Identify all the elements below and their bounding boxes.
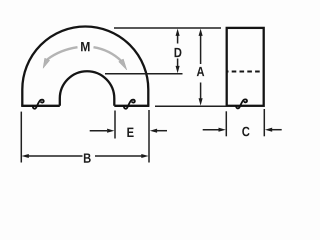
side view rectangle <box>227 28 264 106</box>
label B <box>84 153 91 162</box>
label D <box>175 48 182 57</box>
label E <box>127 128 133 137</box>
extension line window top level <box>105 73 183 75</box>
dimension B line <box>29 155 143 157</box>
side view hidden (dashed) line <box>227 71 264 73</box>
core left leg baseline <box>21 105 60 107</box>
extension line baseline level <box>155 105 227 107</box>
label M <box>81 42 89 51</box>
extension line C right <box>263 109 265 136</box>
M flux arrowhead left <box>43 58 50 68</box>
extension line top (core top level) <box>114 27 221 29</box>
dimension E right arrow <box>157 130 167 132</box>
dimension E left arrow <box>90 130 107 132</box>
label C <box>242 127 249 137</box>
half-toroid core inner window <box>60 71 115 106</box>
dimension D line <box>177 34 179 69</box>
dimension A down arrowhead <box>199 98 203 105</box>
label A <box>197 67 205 76</box>
M flux arrowhead right <box>119 59 127 70</box>
dimension C right arrow <box>272 129 282 131</box>
break squiggle side view <box>236 99 247 108</box>
break squiggle right leg <box>124 100 135 109</box>
extension line B/E right <box>148 110 150 163</box>
dimension C left arrow <box>203 129 219 131</box>
extension line C left <box>225 111 227 136</box>
core right leg baseline <box>114 105 149 107</box>
dimension B right arrowhead <box>141 154 148 158</box>
dimension D up arrowhead <box>176 29 180 36</box>
extension line B left <box>20 112 22 163</box>
M flux arrow curve left segment <box>47 47 77 59</box>
dimension D down arrowhead <box>176 66 180 73</box>
half-toroid core outer profile <box>22 27 148 106</box>
break squiggle left leg <box>33 100 44 109</box>
dimension A up arrowhead <box>199 29 203 36</box>
extension line E left <box>114 111 116 139</box>
M flux arrow curve right segment <box>94 47 122 61</box>
dimension A line <box>200 34 202 101</box>
dimension B left arrowhead <box>22 154 29 158</box>
